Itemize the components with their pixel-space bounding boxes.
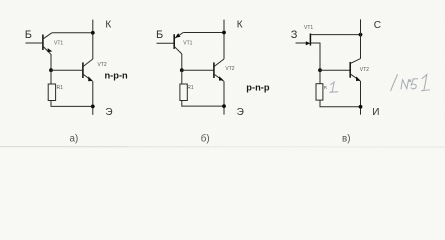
svg-text:Э: Э <box>105 107 112 118</box>
svg-text:VT2: VT2 <box>98 62 107 68</box>
wire R1 bottom elbow to E rail (a) <box>51 101 93 107</box>
svg-text:VT1: VT1 <box>54 40 63 46</box>
svg-text:И: И <box>372 107 379 118</box>
wire R1 bottom elbow to I rail (v) <box>320 100 361 107</box>
junction dot E rail (a) <box>91 105 95 109</box>
resistor R1 (a) <box>48 84 55 101</box>
svg-text:б): б) <box>201 134 210 145</box>
transistor VT2 (v) collector lead <box>350 59 360 64</box>
transistor VT2 (b) emitter lead with arrow <box>214 74 223 81</box>
svg-text:VT1: VT1 <box>304 25 313 31</box>
handwritten 5 <box>411 79 417 89</box>
wire node to VT2 base (a) <box>51 69 82 71</box>
wire node down to R1 (a) <box>50 70 52 84</box>
transistor VT2 (v) bar <box>349 62 351 78</box>
junction dot K rail (b) <box>222 31 226 35</box>
transistor VT2 (a) emitter lead with npn arrow <box>83 74 92 81</box>
wire gate with arrow (v) <box>296 42 307 44</box>
scan artifact bottom line <box>0 146 445 148</box>
svg-text:n-p-n: n-p-n <box>105 71 129 81</box>
junction dot C rail (v) <box>359 33 363 37</box>
svg-text:R1: R1 <box>187 85 194 91</box>
transistor VT2 (b) collector lead <box>214 59 224 66</box>
node dot (b) base node <box>180 68 184 72</box>
junction dot E rail (b) <box>222 104 226 108</box>
node dot (a) base node <box>49 68 53 72</box>
svg-text:Э: Э <box>237 107 244 118</box>
svg-text:в): в) <box>342 133 350 144</box>
wire node down to R1 (b) <box>181 70 183 84</box>
svg-text:VT1: VT1 <box>183 40 192 46</box>
wire node to VT2 base (b) <box>182 69 214 71</box>
wire collector VT1 to K rail (a) <box>52 32 93 34</box>
svg-text:VT2: VT2 <box>225 66 234 72</box>
transistor VT1 (a) collector lead <box>43 33 52 39</box>
junction dot I rail (v) <box>359 105 363 109</box>
svg-text:К: К <box>105 19 111 30</box>
svg-text:К: К <box>237 20 243 31</box>
transistor VT1 (a) emitter lead with npn arrow <box>43 47 51 55</box>
transistor VT2 (a) bar <box>82 62 84 78</box>
K rail vertical (b) <box>223 20 225 59</box>
wire emitter VT1 down to node (a) <box>50 54 52 70</box>
svg-text:Б: Б <box>156 29 163 41</box>
resistor R1 (v) <box>316 84 323 100</box>
wire base VT1 (a) <box>26 42 43 44</box>
handwritten 1 near R (v) <box>330 82 338 92</box>
node dot (v) <box>318 68 322 72</box>
transistor VT2 (a) collector lead <box>83 59 93 66</box>
transistor VT1 (v) bar <box>309 34 311 46</box>
resistor R1 (b) <box>180 84 187 101</box>
I rail vertical (v) <box>360 81 362 115</box>
svg-text:p-n-p: p-n-p <box>246 82 270 92</box>
E rail vertical (a) <box>92 81 94 115</box>
wire collector down to node (b) <box>181 54 183 70</box>
svg-text:а): а) <box>70 134 79 145</box>
handwritten No sign <box>401 80 411 89</box>
C rail vertical (v) <box>360 19 362 58</box>
E rail vertical (b) <box>223 81 225 114</box>
wire VT1 lower lead elbow down to node (v) <box>311 43 320 70</box>
svg-text:VT2: VT2 <box>360 67 369 73</box>
svg-text:З: З <box>291 29 298 41</box>
wire R1 bottom elbow to E rail (b) <box>182 101 224 107</box>
paper background <box>0 0 445 150</box>
wire base VT1 (b) <box>157 42 174 44</box>
handwritten 1 <box>422 75 430 91</box>
transistor VT1 (b) collector lead <box>175 47 182 54</box>
transistor VT1 (b) emitter lead with pnp arrow into bar <box>175 33 184 39</box>
junction dot K rail (a) <box>91 31 95 35</box>
svg-text:R1: R1 <box>57 85 64 91</box>
transistor VT2 (v) emitter lead with npn arrow <box>351 74 361 81</box>
svg-text:R: R <box>324 85 327 90</box>
svg-text:Б: Б <box>25 29 32 41</box>
transistor VT1 (b) bar <box>173 34 175 49</box>
K rail vertical (a) <box>92 20 94 59</box>
transistor VT2 (b) bar <box>213 62 215 78</box>
wire emitter VT1 to K rail (b) <box>183 32 224 34</box>
wire node to VT2 base (v) <box>320 69 350 71</box>
wire node down to R1 (v) <box>319 70 321 84</box>
transistor VT1 (a) bar <box>42 35 44 51</box>
handwritten check slash <box>391 75 398 91</box>
svg-text:С: С <box>374 20 381 31</box>
wire VT1 top to C rail (v) <box>311 34 361 36</box>
